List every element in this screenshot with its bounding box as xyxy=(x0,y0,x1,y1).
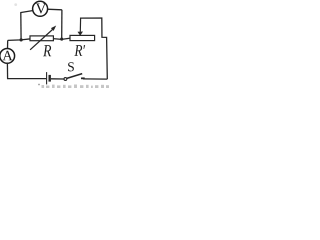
ammeter letter A xyxy=(2,51,12,61)
switch S left terminal xyxy=(64,78,67,81)
node: junction dot left of R xyxy=(20,38,23,41)
background xyxy=(0,0,112,88)
scan smudge top-left xyxy=(14,3,17,6)
battery long plate xyxy=(46,72,48,84)
wire: voltmeter branch right vertical xyxy=(61,10,63,40)
label R xyxy=(43,45,51,56)
wire: battery to switch xyxy=(51,78,64,80)
label S xyxy=(68,62,74,71)
node: junction dot between R and R' xyxy=(60,38,63,41)
resistor R' slider arrow (points down into box) xyxy=(79,18,81,32)
wire: top-left horizontal to voltmeter xyxy=(20,10,34,12)
wire: segment between R and R' xyxy=(53,38,71,39)
ammeter circle xyxy=(0,49,15,64)
wire: left vertical above ammeter xyxy=(7,40,9,48)
wire: bottom right horizontal xyxy=(83,78,108,80)
battery short plate xyxy=(49,75,51,82)
resistor R' (box) xyxy=(70,35,95,40)
switch S blade xyxy=(67,74,82,79)
voltmeter U1 circle xyxy=(33,1,48,16)
wire: middle row left segment (A corner to R) xyxy=(8,39,31,41)
resistor R diagonal arrow xyxy=(30,28,54,50)
wire: bottom left horizontal to battery xyxy=(7,78,46,80)
label R' xyxy=(74,45,85,56)
wire: voltmeter branch left vertical xyxy=(20,13,22,40)
wire: top-right horizontal from voltmeter xyxy=(47,8,62,11)
wire: slider tap top horizontal xyxy=(81,18,108,79)
voltmeter letter V xyxy=(36,3,46,13)
wire: left vertical below ammeter xyxy=(6,63,8,78)
switch S right terminal xyxy=(81,77,85,79)
ghost watermark text (scan bleed, bottom edge) xyxy=(38,84,40,86)
resistor R (box) xyxy=(30,36,53,41)
